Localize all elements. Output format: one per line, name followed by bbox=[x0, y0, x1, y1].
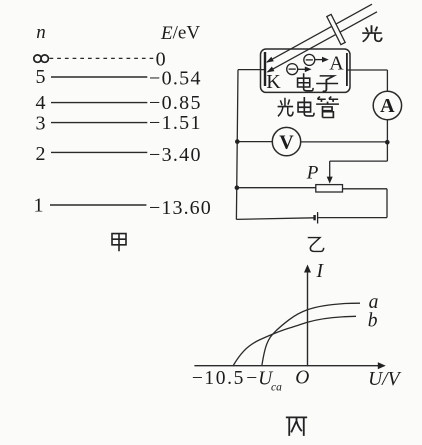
svg-text:3: 3 bbox=[36, 112, 46, 134]
svg-text:−10.5: −10.5 bbox=[192, 368, 245, 389]
svg-text:−0.85: −0.85 bbox=[149, 92, 202, 114]
svg-text:A: A bbox=[380, 95, 395, 117]
svg-text:I: I bbox=[316, 261, 325, 282]
svg-text:P: P bbox=[306, 162, 319, 183]
svg-text:−1.51: −1.51 bbox=[149, 112, 202, 134]
svg-text:5: 5 bbox=[36, 66, 46, 88]
svg-text:K: K bbox=[266, 71, 281, 93]
svg-text:−0.54: −0.54 bbox=[149, 67, 202, 89]
svg-text:2: 2 bbox=[36, 143, 46, 165]
svg-text:−U: −U bbox=[246, 368, 274, 389]
svg-text:U/V: U/V bbox=[368, 369, 402, 390]
svg-text:A: A bbox=[329, 53, 344, 75]
svg-text:4: 4 bbox=[36, 92, 46, 114]
svg-text:−13.60: −13.60 bbox=[149, 197, 212, 219]
svg-text:E/eV: E/eV bbox=[160, 23, 200, 44]
svg-text:1: 1 bbox=[34, 195, 44, 217]
svg-text:n: n bbox=[36, 22, 46, 43]
svg-text:O: O bbox=[295, 368, 309, 389]
svg-text:V: V bbox=[279, 131, 294, 153]
svg-text:−3.40: −3.40 bbox=[149, 144, 202, 166]
svg-text:b: b bbox=[368, 311, 378, 332]
svg-text:ca: ca bbox=[271, 381, 282, 393]
